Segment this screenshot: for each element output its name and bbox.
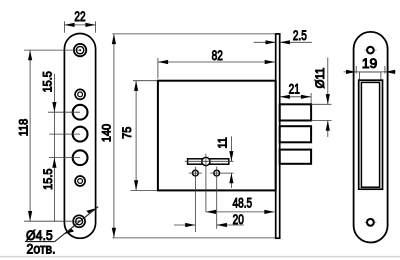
svg-text:20: 20 (233, 211, 244, 227)
dimension 11 (217, 136, 233, 188)
strike cutout inner (361, 82, 379, 187)
dimension 15.5 top and bottom shared line (42, 71, 56, 221)
svg-text:48.5: 48.5 (232, 195, 252, 211)
dimension 48.5 (206, 195, 275, 214)
svg-text:2отв.: 2отв. (26, 241, 55, 257)
faint page rule (0, 256, 400, 258)
svg-text:Ø11: Ø11 (314, 68, 327, 89)
cylinder screw hole left (189, 167, 202, 180)
svg-text:11: 11 (217, 137, 229, 148)
bolt 2 (280, 126, 311, 142)
right plate bottom screw hole (364, 219, 376, 226)
right plate top screw hole (364, 47, 376, 54)
large hole 2 (73, 127, 88, 142)
strike cutout lip (359, 72, 381, 80)
left faceplate outline (64, 34, 95, 239)
svg-text:21: 21 (289, 81, 300, 97)
large hole 1 (73, 105, 88, 120)
svg-text:75: 75 (122, 127, 134, 139)
small hole ring 1 (75, 89, 85, 99)
cylinder screw hole right (210, 167, 223, 180)
svg-text:140: 140 (101, 124, 113, 142)
dimension 140 (101, 34, 275, 238)
top screw hole (74, 44, 86, 56)
svg-text:15.5: 15.5 (42, 71, 54, 92)
extension line screw center (223, 172, 233, 174)
dimension 22 (64, 8, 95, 32)
svg-text:22: 22 (74, 8, 85, 24)
svg-text:82: 82 (212, 47, 223, 63)
dimension diameter 11 (311, 58, 331, 138)
svg-text:19: 19 (362, 55, 378, 71)
leader line diameter 4.5 (25, 207, 98, 242)
dimension 2.5 (254, 27, 312, 44)
large hole 3 (73, 150, 88, 165)
dimension 21 (280, 81, 311, 104)
extension line left screw (194, 180, 196, 232)
centerline large hole 2 (49, 133, 80, 135)
centerline cylinder vertical (205, 154, 207, 212)
centerline top screw hole (24, 49, 80, 51)
centerline bottom screw hole (24, 220, 79, 222)
centerline large hole 3 (49, 157, 80, 159)
bolt 3 (280, 150, 311, 164)
svg-text:15.5: 15.5 (43, 169, 55, 190)
right strike plate outline (354, 32, 388, 243)
dimension 82 (158, 47, 275, 78)
dimension 19 (344, 55, 396, 74)
middle faceplate (side view) (276, 34, 280, 238)
dimension 75 (122, 81, 157, 191)
strike cutout outer (359, 80, 383, 189)
small hole ring 2 (75, 176, 85, 186)
bottom screw hole (73, 215, 85, 227)
lock body outline (158, 81, 276, 191)
centerline large hole 1 (48, 111, 80, 113)
dimension 118 (18, 50, 32, 221)
svg-text:2.5: 2.5 (293, 27, 307, 43)
extension line right screw (216, 180, 218, 229)
bolt 1 (280, 104, 311, 120)
cylinder bar (185, 157, 234, 165)
dimension 20 (174, 211, 244, 227)
svg-text:118: 118 (18, 119, 30, 136)
